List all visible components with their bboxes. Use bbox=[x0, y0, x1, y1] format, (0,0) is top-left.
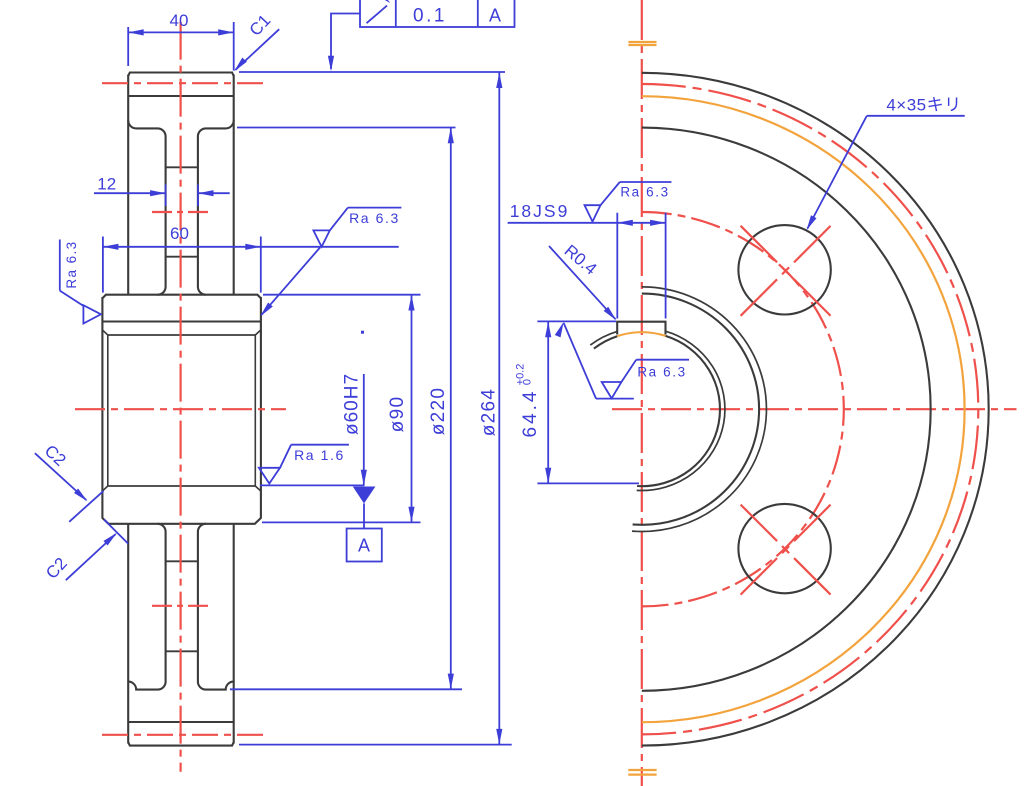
bore chamfer circle 64 upper-left segment bbox=[590, 331, 617, 345]
bore bottom edge line bbox=[108, 485, 256, 487]
right view vertical centerline bbox=[641, 0, 643, 786]
dim 90 top extension bbox=[263, 294, 421, 296]
rim side faces bottom bbox=[127, 681, 129, 744]
svg-text:40: 40 bbox=[170, 11, 189, 30]
dim 220 bottom extension bbox=[230, 688, 462, 690]
rim inner circle 220 bbox=[642, 128, 931, 691]
svg-text:12: 12 bbox=[97, 175, 116, 194]
surface mark Ra 1.6 on bore bbox=[259, 468, 280, 484]
dim 90 dimension line bbox=[411, 295, 413, 522]
dim 90 bottom extension bbox=[262, 521, 421, 523]
keyway bottom line in section bbox=[102, 321, 261, 323]
web fillet circle 96 bbox=[632, 287, 766, 532]
web right line lower with fillets bbox=[198, 524, 234, 690]
hole centerline cross lower bbox=[152, 605, 210, 607]
svg-text:A: A bbox=[358, 536, 370, 556]
runout feature control frame bbox=[360, 0, 515, 27]
bore top edge line bbox=[108, 334, 256, 336]
bore chamfer C2 diagonals bbox=[102, 330, 107, 335]
keyway left wall bbox=[616, 322, 618, 335]
bolt circle BCD (red chain) bbox=[642, 212, 844, 606]
svg-text:0.1: 0.1 bbox=[413, 6, 447, 27]
dim 12 extension ticks bbox=[165, 185, 167, 207]
keyway right wall bbox=[664, 322, 666, 335]
rim tread band line (244 circle) upper bbox=[128, 95, 234, 97]
hardened band circle 244 (orange) bbox=[642, 96, 965, 722]
svg-text:A: A bbox=[489, 6, 501, 26]
svg-text:64.4: 64.4 bbox=[520, 389, 541, 438]
bolt hole lower cross centerlines bbox=[741, 505, 831, 595]
rim left side face edge bbox=[127, 75, 129, 295]
bolt hole section silhouette upper edge bbox=[166, 166, 198, 168]
dim 40 extension lines bbox=[127, 27, 129, 66]
web left line lower with fillets bbox=[128, 524, 165, 690]
surface mark Ra 6.3 on keyway width bbox=[585, 205, 601, 221]
centerline break ticks top bbox=[628, 41, 656, 43]
tread circle centerline lower bbox=[102, 734, 264, 736]
dim 60 extension lines bbox=[102, 237, 104, 293]
hub top face bbox=[102, 295, 261, 299]
datum A stem bbox=[363, 504, 365, 530]
bolt hole section silhouette lower edge bbox=[166, 256, 198, 258]
dim 64.4 dimension line bbox=[547, 322, 549, 483]
pitch circle 254 (red chain) bbox=[642, 84, 979, 734]
left view horizontal axis centerline bbox=[75, 408, 286, 410]
svg-text:ø60H7: ø60H7 bbox=[342, 373, 363, 435]
centerline break ticks bottom bbox=[628, 769, 656, 771]
svg-text:0: 0 bbox=[522, 379, 534, 385]
hub bottom chamfers + bottom face bbox=[102, 518, 261, 524]
svg-text:Ra 1.6: Ra 1.6 bbox=[294, 447, 345, 463]
bolt hole upper bbox=[738, 225, 830, 314]
hub boss circle 90 bbox=[633, 294, 759, 525]
dim 40 dimension line bbox=[128, 31, 234, 33]
bore circle 60 upper-left segment bbox=[594, 336, 617, 348]
dim 264 top extension bbox=[239, 71, 505, 73]
svg-text:4×35キリ: 4×35キリ bbox=[886, 96, 961, 115]
dim 264 bottom extension bbox=[239, 744, 512, 746]
dim 60 dimension line bbox=[103, 246, 399, 248]
hub left face bbox=[101, 297, 103, 519]
tread circle centerline upper bbox=[102, 82, 264, 84]
svg-text:Ra 6.3: Ra 6.3 bbox=[64, 240, 79, 288]
bore circle across keyway (orange) bbox=[617, 332, 665, 336]
bore circle 60 main arc bbox=[637, 336, 720, 486]
svg-text:ø220: ø220 bbox=[428, 387, 449, 436]
stray dot bbox=[361, 331, 364, 334]
dim 18JS9 dimension line bbox=[508, 222, 666, 224]
dim 220 top extension bbox=[237, 127, 456, 129]
svg-text:ø90: ø90 bbox=[387, 396, 408, 433]
svg-text:Ra 6.3: Ra 6.3 bbox=[349, 210, 400, 226]
surface mark Ra 6.3 keyway bottom leader bbox=[564, 323, 596, 399]
rim tread band line lower bbox=[128, 721, 234, 723]
runout symbol arrow bbox=[367, 6, 388, 24]
surface mark Ra 6.3 on hub width bbox=[313, 230, 329, 246]
wheel section: top rim outer face bbox=[128, 73, 234, 77]
hub right face bbox=[260, 297, 262, 519]
svg-text:Ra 6.3: Ra 6.3 bbox=[637, 365, 686, 380]
rim right side edge lower bbox=[233, 524, 235, 682]
bottom rim face bbox=[128, 742, 234, 745]
datum A box bbox=[347, 529, 382, 562]
dim 60H7 leader line bbox=[363, 374, 365, 485]
dim 18 extension lines bbox=[616, 213, 618, 319]
bolt hole upper cross centerlines bbox=[741, 226, 831, 316]
left view vertical axis centerline bbox=[180, 22, 182, 772]
web right line upper with fillets bbox=[198, 120, 234, 294]
outer circle 264 bbox=[642, 73, 989, 746]
bore chamfer circle 64 main arc bbox=[637, 331, 725, 490]
dim 264 dimension line bbox=[498, 73, 500, 745]
bolt hole section silhouette lower pair bbox=[166, 560, 198, 562]
rim right side face edge bbox=[233, 75, 235, 295]
rim inner face (220) upper with fillets to web bbox=[128, 120, 165, 294]
dim 64.4 top extension bbox=[537, 320, 616, 322]
bolt hole lower bbox=[738, 504, 830, 593]
Ra 6.3 leader to hub face bbox=[262, 248, 321, 315]
svg-text:ø264: ø264 bbox=[479, 388, 500, 437]
datum A symbol triangle bbox=[353, 487, 376, 504]
bore bottom extension to datum bbox=[260, 484, 365, 486]
surface mark Ra 6.3 rotated on hub left face bbox=[59, 240, 61, 291]
svg-text:18JS9: 18JS9 bbox=[510, 201, 570, 221]
keyway top face bbox=[616, 321, 666, 323]
right view horizontal centerline bbox=[612, 408, 1017, 410]
dim 12 dimension line bbox=[94, 192, 166, 194]
svg-text:Ra 6.3: Ra 6.3 bbox=[620, 185, 669, 200]
svg-text:60: 60 bbox=[170, 224, 189, 243]
bore chamfer edge verticals bbox=[107, 335, 109, 486]
hole centerline cross upper bbox=[152, 211, 210, 213]
rim left side edge lower bbox=[127, 524, 129, 682]
dim 220 dimension line bbox=[450, 128, 452, 689]
dim 64.4 bottom extension bbox=[537, 482, 639, 484]
frame leader to 264 bbox=[331, 14, 360, 70]
